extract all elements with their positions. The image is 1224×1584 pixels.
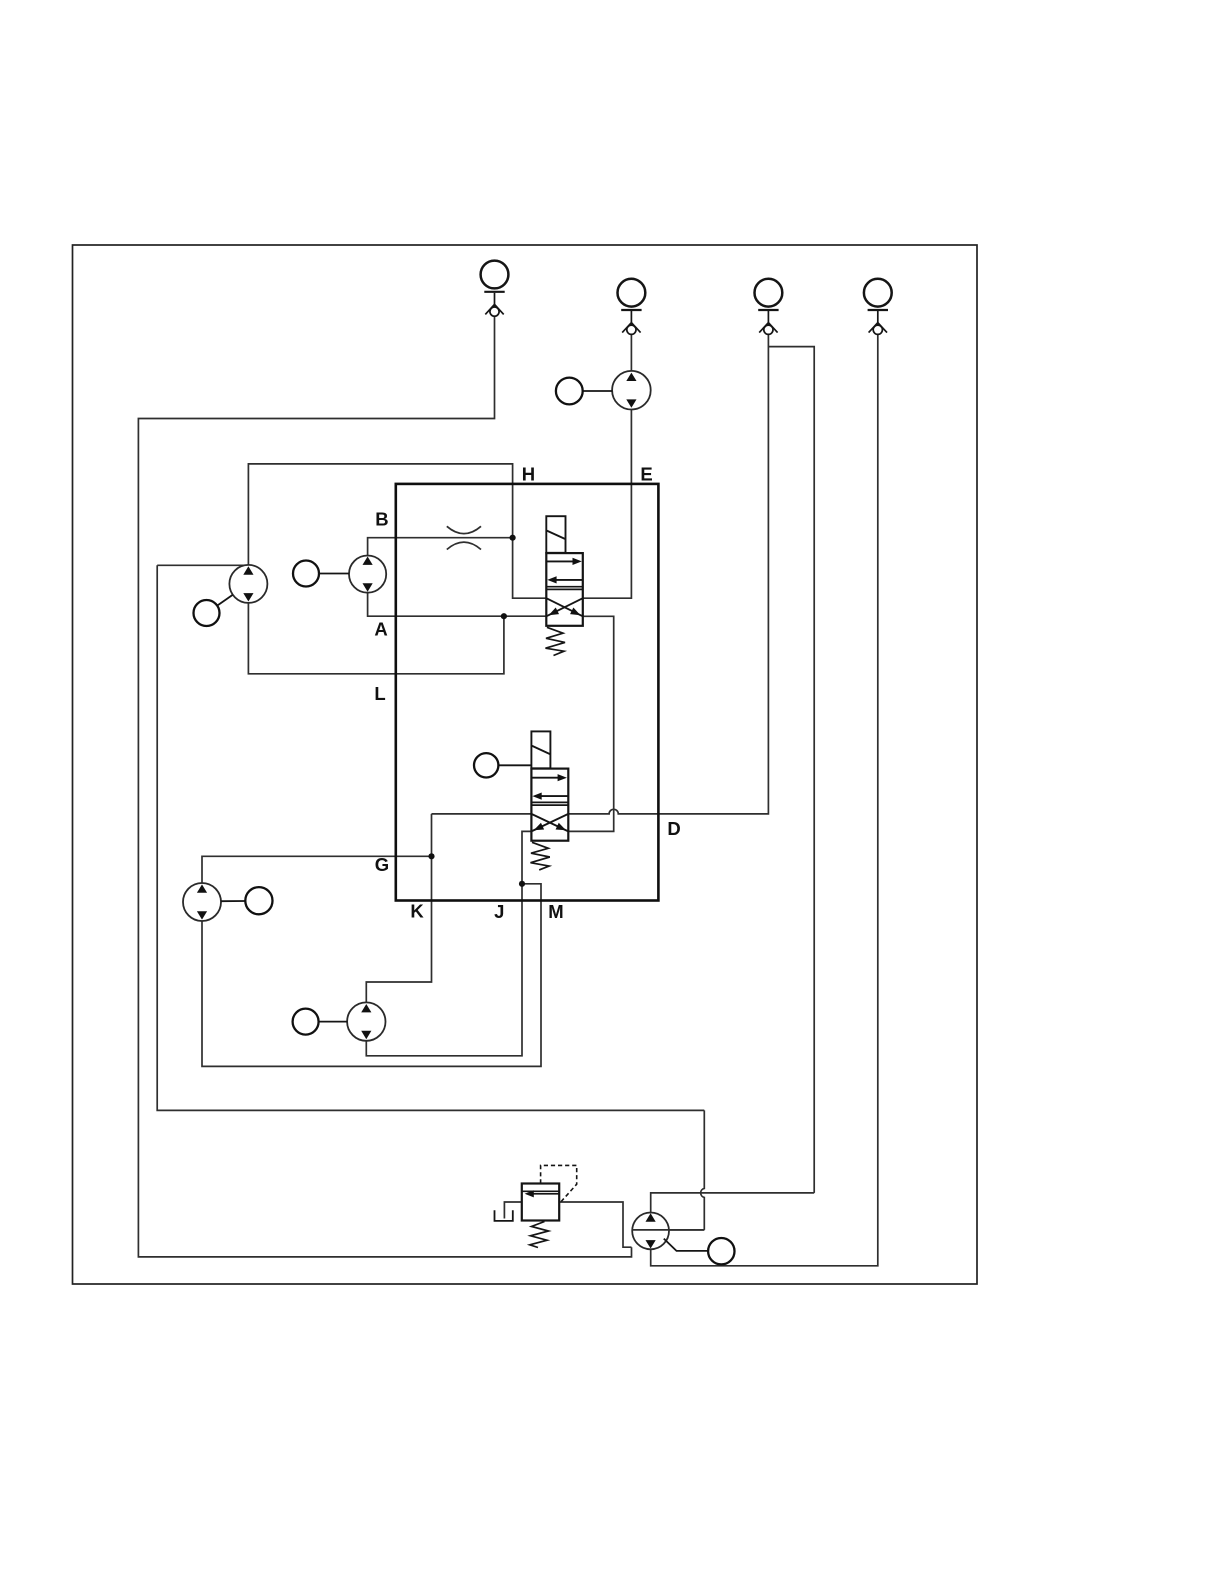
motor M4 (lower middle) [347, 1002, 385, 1040]
svg-text:A: A [374, 619, 387, 640]
motor M1 (upper left) [229, 565, 267, 603]
wire valve1 right-bottom to valve2 right-bottom [568, 616, 613, 831]
junction node J/M [519, 881, 525, 887]
callout balloon for motor M2 [293, 561, 349, 587]
svg-text:E: E [640, 464, 652, 485]
junction node G [428, 853, 434, 859]
svg-text:J: J [494, 901, 504, 922]
wire motor1 top feed [157, 564, 248, 566]
test port 3 with check coupler [755, 279, 783, 335]
wire H loop [248, 464, 546, 598]
charge pump P5 (bottom) [632, 1213, 669, 1250]
wire tank loop from port 1 down left side and along bottom [138, 316, 631, 1257]
svg-text:G: G [375, 854, 389, 875]
wire vertical hop over pump outlet line [701, 1110, 705, 1230]
wire A line [368, 593, 547, 617]
callout balloon for valve V2 solenoid [474, 753, 531, 777]
relief valve (bottom) [495, 1165, 577, 1247]
junction node on A line [501, 613, 507, 619]
solenoid valve V1 (upper) [546, 516, 583, 655]
wire M riser to motor3 bottom [202, 884, 541, 1067]
wire motor1 bottom to node A [248, 603, 504, 674]
wire port3 branch to right riser P line [768, 347, 814, 1193]
motor M2 (upper middle) [349, 556, 386, 593]
test port 1 with check coupler [481, 261, 509, 317]
wire charge pump bottom to port 4 suction [651, 334, 878, 1265]
svg-text:M: M [548, 901, 563, 922]
svg-text:L: L [374, 683, 385, 704]
test port 4 with check coupler [864, 279, 892, 335]
wire through charge pump body [632, 1229, 705, 1231]
callout balloon for motor M1 [194, 595, 233, 626]
wire port2 to pump E line [630, 334, 632, 371]
wire G line to motor3 top [202, 856, 432, 883]
wire through charge pump center [632, 1229, 704, 1231]
callout balloon for charge pump P5 [664, 1238, 735, 1264]
svg-text:B: B [375, 509, 388, 530]
svg-text:H: H [522, 464, 535, 485]
test port 2 with check coupler [618, 279, 646, 335]
callout balloon for motor M3 [221, 887, 273, 914]
wire D line left of valve2 [432, 813, 532, 815]
wire valve2 left-bottom to node J [522, 831, 531, 883]
pump P2 bidirectional (top) [612, 371, 651, 410]
motor M3 (lower left) [183, 883, 221, 921]
orifice restriction in B line [447, 526, 481, 549]
svg-text:K: K [410, 901, 424, 922]
wire K riser to motor4 top [366, 814, 431, 1003]
wire J riser to motor4 bottom [366, 884, 522, 1056]
wire D line with hop to port 3 [568, 334, 768, 814]
wire charge pump top to P riser [651, 1193, 815, 1213]
wire relief valve outlet to pump inlet [559, 1202, 631, 1247]
wire B line with orifice run [368, 538, 513, 556]
svg-text:D: D [667, 818, 680, 839]
junction node on B line [509, 535, 515, 541]
callout balloon for motor M4 [293, 1009, 348, 1035]
solenoid valve V2 (lower) [531, 731, 569, 870]
callout balloon for pump P2 [556, 378, 612, 405]
wire charge line left riser to bottom manifold [157, 565, 704, 1110]
subsystem boundary box [396, 484, 659, 901]
wire relief valve drain to tank symbol [504, 1202, 521, 1219]
